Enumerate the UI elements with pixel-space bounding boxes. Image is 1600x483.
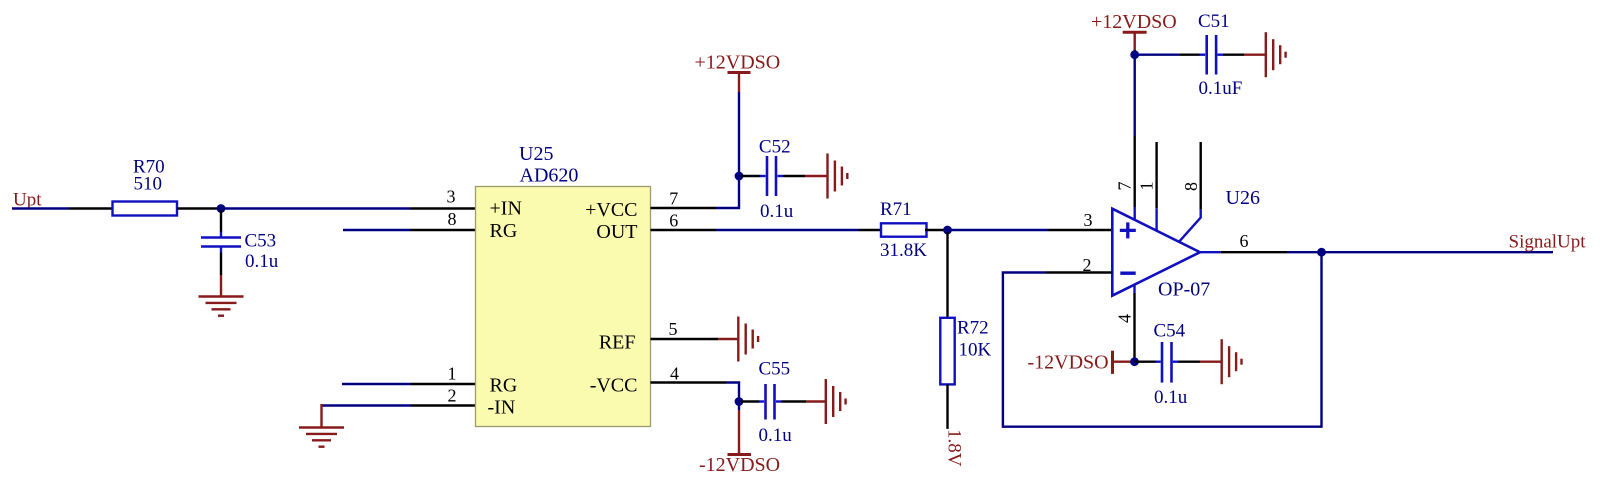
- svg-text:R72: R72: [957, 318, 989, 339]
- resistor R70: [113, 157, 178, 216]
- ground for REF: [718, 317, 758, 362]
- ground for C52: [805, 154, 847, 199]
- svg-text:AD620: AD620: [520, 164, 579, 186]
- capacitor C52: [741, 137, 805, 223]
- wire Upt net: [12, 207, 69, 209]
- svg-text:1: 1: [1136, 182, 1156, 191]
- svg-text:0.1u: 0.1u: [245, 251, 279, 272]
- svg-text:0.1uF: 0.1uF: [1199, 78, 1243, 99]
- svg-text:R71: R71: [880, 199, 912, 220]
- wire U26 output: [1200, 251, 1553, 253]
- wire U26 pin 7 lead: [1133, 136, 1135, 207]
- wire U25 pin 4 lead: [651, 381, 727, 383]
- svg-text:10K: 10K: [959, 340, 992, 361]
- power +12VDSO left: [695, 52, 781, 93]
- svg-text:6: 6: [669, 210, 678, 230]
- svg-text:OUT: OUT: [596, 221, 637, 243]
- wire pin7 to +12VDSO: [716, 92, 739, 208]
- svg-text:+IN: +IN: [490, 198, 522, 220]
- wire U26 pin 1 lead: [1155, 142, 1157, 231]
- node junction B: [943, 226, 952, 235]
- svg-text:6: 6: [1240, 231, 1249, 251]
- wire R71 left lead: [859, 229, 881, 231]
- wire U25 pin 7 lead: [651, 207, 717, 209]
- svg-text:7: 7: [1115, 182, 1135, 191]
- node junction A: [217, 204, 226, 213]
- svg-text:+12VDSO: +12VDSO: [695, 52, 781, 74]
- wire net to U25 pin3: [221, 207, 410, 209]
- wire U25 pin 2 lead: [411, 404, 476, 406]
- svg-text:+VCC: +VCC: [585, 199, 637, 221]
- svg-text:1.8V: 1.8V: [944, 429, 965, 467]
- node junction C54 tap: [1130, 357, 1139, 366]
- svg-text:U25: U25: [519, 143, 553, 165]
- svg-text:C54: C54: [1154, 321, 1186, 342]
- capacitor C53: [201, 210, 279, 275]
- wire U25 pin 8 lead: [410, 229, 476, 231]
- wire U25 pin1 net stub: [342, 383, 411, 385]
- svg-text:4: 4: [670, 364, 679, 384]
- svg-text:C53: C53: [245, 231, 277, 252]
- wire U25 pin2 net: [322, 404, 412, 406]
- wire R71 right lead: [925, 229, 948, 231]
- svg-text:OP-07: OP-07: [1158, 279, 1210, 301]
- wire U26 pin 8 lead: [1179, 142, 1201, 242]
- node junction C52 tap: [735, 172, 744, 181]
- svg-text:8: 8: [1181, 182, 1201, 191]
- svg-text:0.1u: 0.1u: [760, 201, 794, 222]
- wire OUT net: [716, 229, 859, 231]
- svg-text:U26: U26: [1226, 187, 1260, 209]
- wire +12V down to U26 pin7: [1133, 55, 1135, 136]
- svg-text:+12VDSO: +12VDSO: [1091, 11, 1177, 33]
- svg-text:8: 8: [448, 209, 457, 229]
- wire pin4 to -12VDSO: [726, 383, 739, 402]
- svg-text:4: 4: [1115, 314, 1135, 323]
- power +12VDSO right: [1091, 11, 1177, 55]
- svg-text:-IN: -IN: [488, 397, 516, 419]
- resistor R71: [880, 199, 927, 261]
- wire R70 left lead: [69, 207, 113, 209]
- wire net to U26 pin3: [948, 229, 1049, 231]
- svg-text:510: 510: [134, 174, 163, 195]
- svg-text:5: 5: [669, 319, 678, 339]
- capacitor C55: [741, 358, 806, 446]
- svg-text:7: 7: [669, 188, 678, 208]
- wire U26 pin 2 lead: [1046, 271, 1112, 273]
- wire feedback net: [1003, 252, 1322, 427]
- svg-text:2: 2: [448, 386, 457, 406]
- power -12VDSO right: [1028, 351, 1132, 374]
- resistor R72: [940, 232, 991, 429]
- node junction C55 tap: [735, 397, 744, 406]
- ground for C55: [806, 379, 846, 424]
- svg-text:C51: C51: [1198, 11, 1230, 32]
- wire U25 pin 5 lead: [651, 338, 719, 340]
- svg-text:1: 1: [448, 364, 457, 384]
- ground for U25 -IN: [299, 404, 344, 447]
- power -12VDSO left: [699, 402, 780, 477]
- IC U25 AD620: [476, 143, 651, 427]
- wire U25 pin 6 lead: [651, 229, 717, 231]
- wire R70 right lead: [177, 207, 221, 209]
- svg-text:0.1u: 0.1u: [1154, 387, 1188, 408]
- svg-text:3: 3: [447, 187, 456, 207]
- svg-text:RG: RG: [490, 375, 518, 397]
- svg-text:SignalUpt: SignalUpt: [1509, 232, 1587, 253]
- svg-text:-12VDSO: -12VDSO: [1028, 352, 1109, 374]
- op-amp U26: [1112, 187, 1260, 301]
- ground for C53: [199, 275, 244, 316]
- svg-text:0.1u: 0.1u: [759, 425, 793, 446]
- svg-text:31.8K: 31.8K: [880, 240, 927, 261]
- wire U25 pin 3 lead: [410, 207, 476, 209]
- node junction output: [1317, 248, 1326, 257]
- svg-text:RG: RG: [490, 220, 518, 242]
- wire U25 pin8 net stub: [343, 229, 410, 231]
- wire U26 pin 4 lead: [1133, 285, 1135, 362]
- svg-text:-12VDSO: -12VDSO: [699, 454, 780, 476]
- svg-text:-VCC: -VCC: [590, 375, 638, 397]
- wire U25 pin 1 lead: [411, 383, 476, 385]
- svg-text:C52: C52: [759, 137, 791, 158]
- capacitor C51: [1135, 11, 1244, 99]
- svg-text:3: 3: [1084, 210, 1093, 230]
- ground for C54: [1200, 339, 1242, 384]
- node junction C51 tap: [1130, 50, 1139, 59]
- svg-text:REF: REF: [599, 332, 636, 354]
- svg-text:C55: C55: [759, 358, 791, 379]
- wire U26 pin 3 lead: [1048, 229, 1112, 231]
- ground for C51: [1244, 32, 1286, 77]
- capacitor C54: [1135, 321, 1201, 408]
